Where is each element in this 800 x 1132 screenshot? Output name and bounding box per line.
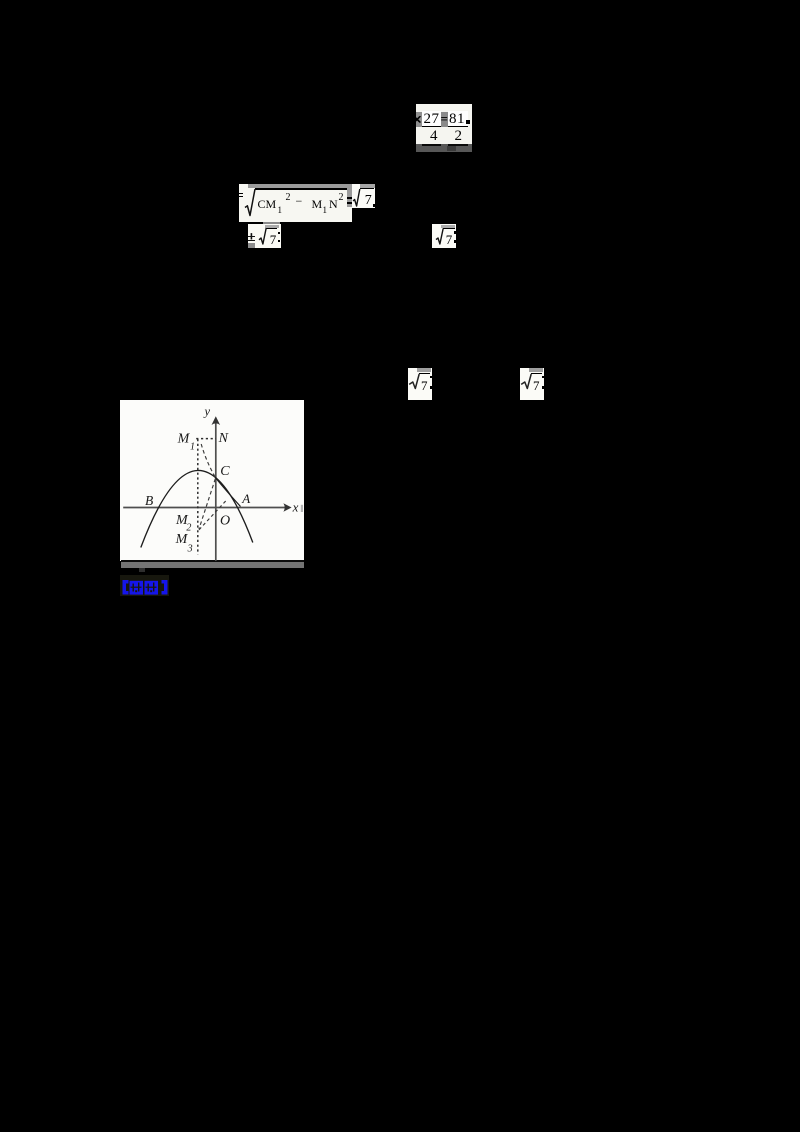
sqrt7 B digit 7: [270, 232, 277, 248]
sqrt7 E top gray bar: [529, 368, 544, 372]
F2 bottom gray smudge: [263, 222, 280, 226]
sqrt7 A vinculum: [360, 188, 374, 189]
F2 left equals fragment bar 2: [239, 196, 242, 197]
sqrt7 image A white background: [352, 184, 375, 208]
parabola curve: [141, 470, 253, 547]
graph smudge below bar: [139, 568, 146, 572]
F2 equals before sqrt7 bar 2: [347, 202, 353, 204]
sqrt7 image D white background: [408, 368, 432, 400]
sqrt7 A digit 7: [365, 193, 372, 209]
sqrt7 D right tick lower: [430, 386, 432, 389]
F1 underline remnant right: [448, 144, 469, 146]
x-axis arrowhead: [283, 503, 291, 511]
chord CA: [216, 478, 241, 506]
dashed segment M3-O extended: [199, 499, 227, 529]
sqrt7 C vinculum: [443, 228, 455, 229]
F1 dark smudge under bar: [447, 146, 456, 151]
gray tick right of x label: [301, 504, 303, 511]
sqrt7 C right tick lower: [454, 240, 456, 243]
F2 superscript 2: [286, 192, 291, 203]
sqrt7 D digit 7: [421, 378, 428, 394]
F2 equals gray patch: [347, 184, 352, 207]
dotted vertical line M1-M3: [197, 439, 199, 555]
sqrt7 A top gray bar: [360, 184, 375, 188]
y-axis arrowhead: [212, 416, 221, 425]
svg-text:A: A: [241, 490, 250, 505]
sqrt7 B gray patch bottom-left: [248, 243, 255, 248]
sqrt7 C top gray bar: [441, 225, 456, 228]
sqrt7 D radical stroke: [408, 371, 422, 393]
svg-text:B: B: [145, 493, 153, 508]
numerator 81 text: [449, 111, 465, 128]
F2 subscript 1: [278, 205, 283, 215]
numerator 27 white box: [422, 111, 442, 127]
multiplication sign ×: [412, 110, 422, 130]
sqrt7 A black dot: [373, 204, 375, 207]
formula image F1: ×27/4=81/2 white background: [416, 104, 472, 144]
denominator 4: [430, 128, 438, 145]
F1 left gray patch: [416, 112, 422, 127]
F2 subscript 1b: [323, 205, 328, 215]
dashed segment C-M3: [199, 478, 215, 528]
numerator 81 white box: [448, 111, 469, 127]
equals sign: [441, 111, 448, 127]
glyph 2 inner gaps: [147, 583, 148, 591]
sqrt7 A radical stroke: [351, 186, 363, 210]
F2 top gray bar: [248, 184, 352, 188]
sqrt7 B plus-minus glyph: [247, 230, 255, 246]
graph drawing svg: [120, 400, 304, 561]
F2 radical sign stroke: [242, 186, 258, 220]
glyph blob 2: [144, 580, 158, 594]
svg-text:O: O: [220, 513, 230, 528]
F2 text M: [266, 197, 277, 212]
sqrt7 image B (±√7) white background: [248, 224, 281, 248]
F2 left equals fragment bar 1: [239, 193, 242, 194]
dotted horizontal segment M1-N: [196, 437, 216, 439]
y-axis: [215, 420, 217, 561]
F1 bottom gray shadow bar: [416, 144, 472, 152]
fraction bar under 27: [422, 126, 442, 128]
sqrt7 D vinculum: [419, 373, 430, 374]
F2 text C: [258, 197, 266, 212]
dashed segment M1-C: [201, 444, 215, 477]
sqrt7 C digit 7: [446, 232, 453, 248]
svg-text:y: y: [203, 404, 211, 418]
sqrt7 D top gray bar: [417, 368, 432, 372]
F2 superscript 2b: [339, 192, 344, 203]
blue tag dark box: [120, 575, 169, 596]
svg-text:x: x: [292, 499, 299, 514]
glyph 1 inner gaps: [132, 583, 133, 591]
svg-text:M: M: [177, 431, 191, 446]
svg-text:N: N: [218, 431, 229, 446]
left bracket: [122, 580, 128, 595]
svg-text:3: 3: [187, 543, 193, 554]
graph bottom gray bar: [121, 562, 304, 568]
x-axis: [123, 506, 285, 508]
sqrt7 B vinculum: [266, 228, 277, 229]
sqrt7 B right tick upper: [278, 232, 280, 234]
F2 text M2: [312, 197, 323, 212]
svg-text:1: 1: [190, 441, 195, 452]
sqrt7 E radical stroke: [520, 371, 534, 393]
equals sign gray patch: [441, 112, 448, 127]
svg-text:C: C: [220, 463, 230, 478]
sqrt7 E vinculum: [531, 373, 542, 374]
sqrt7 C radical stroke: [434, 226, 446, 248]
graph bottom black line: [121, 560, 304, 562]
sqrt7 B radical stroke: [257, 226, 269, 248]
svg-text:M: M: [175, 532, 189, 547]
sqrt7 E digit 7: [533, 378, 540, 394]
sqrt7 image E white background: [520, 368, 544, 400]
formula image F2: sqrt(CM1^2 - M1N^2) white background: [239, 184, 352, 222]
sqrt7 D right tick upper: [430, 376, 432, 378]
denominator 2: [455, 128, 463, 145]
numerator 27 text: [424, 111, 440, 128]
sqrt7 E right tick lower: [542, 386, 544, 389]
black dot after 81: [466, 120, 470, 125]
blue tag glyphs 【解析】: [121, 578, 169, 597]
F2 equals before sqrt7 bar 1: [347, 197, 353, 199]
fraction bar under 81: [448, 126, 469, 128]
F2 text N: [329, 197, 338, 212]
graph image white background: [120, 400, 304, 561]
F1 underline remnant left: [422, 144, 441, 146]
sqrt7 B right tick lower: [278, 240, 280, 242]
sqrt7 C right tick upper: [454, 231, 456, 234]
F2 radical vinculum bar: [255, 188, 347, 189]
sqrt7 B top gray bar: [265, 225, 279, 228]
F2 minus sign: [296, 194, 303, 209]
sqrt7 E right tick upper: [542, 376, 544, 378]
sqrt7 image C white background: [432, 224, 456, 248]
glyph blob 1: [129, 580, 143, 594]
right bracket: [161, 580, 167, 595]
